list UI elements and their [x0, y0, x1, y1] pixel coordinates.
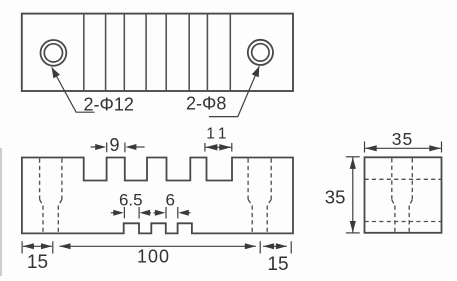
svg-text:11: 11: [206, 126, 231, 143]
svg-text:15: 15: [27, 252, 48, 273]
svg-text:15: 15: [267, 254, 288, 275]
svg-text:2-Φ8: 2-Φ8: [186, 93, 226, 113]
svg-text:2-Φ12: 2-Φ12: [84, 95, 134, 115]
svg-text:6.5: 6.5: [119, 190, 143, 209]
svg-text:35: 35: [392, 129, 413, 149]
svg-text:35: 35: [325, 186, 346, 207]
svg-text:9: 9: [109, 135, 119, 155]
svg-text:6: 6: [165, 190, 174, 209]
svg-text:100: 100: [137, 247, 170, 267]
